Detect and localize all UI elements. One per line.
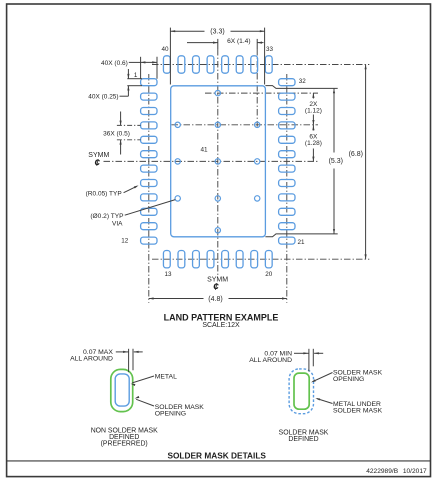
svg-text:4222989/B: 4222989/B: [366, 468, 399, 475]
svg-text:SCALE:12X: SCALE:12X: [202, 322, 240, 329]
dimension 40X (0.6) ticks: [140, 57, 142, 79]
vertical SYMM centerline: [217, 49, 219, 275]
svg-text:ALL AROUND: ALL AROUND: [70, 356, 113, 363]
svg-text:SOLDER MASK: SOLDER MASK: [333, 408, 383, 415]
pad 9 (left column): [141, 194, 157, 201]
pad 39 (top row): [178, 56, 185, 73]
pad 11 (left column): [141, 223, 157, 230]
svg-text:20: 20: [265, 271, 273, 278]
svg-text:SOLDER MASK DETAILS: SOLDER MASK DETAILS: [167, 450, 266, 460]
svg-text:13: 13: [164, 271, 172, 278]
svg-text:12: 12: [121, 238, 129, 245]
pad 27 (right column): [279, 151, 295, 158]
svg-text:(Ø0.2) TYP: (Ø0.2) TYP: [90, 213, 124, 220]
top pad row centerline: [152, 64, 369, 66]
NSMD 0.07 MAX arrows: [116, 351, 129, 353]
pad 17 (bottom row): [222, 251, 229, 268]
SMD metal under mask (blue dashed): [289, 369, 313, 414]
svg-text:OPENING: OPENING: [333, 376, 364, 383]
dimension 6X (1.4) tick at via column: [256, 39, 258, 49]
via row 1 centerline: [205, 92, 318, 94]
pad 2 (left column): [141, 93, 157, 100]
dimension 2X (1.12) arrows: [312, 93, 314, 98]
pad 16 (bottom row): [207, 251, 214, 268]
NSMD solder mask opening (green): [111, 369, 133, 411]
svg-text:(PREFERRED): (PREFERRED): [101, 441, 148, 448]
NSMD metal pad (blue): [115, 374, 129, 406]
pad 21 (right column): [279, 237, 295, 244]
svg-text:33: 33: [266, 46, 274, 53]
svg-text:40X (0.25): 40X (0.25): [88, 93, 118, 100]
pad 36 (top row): [222, 56, 229, 73]
svg-text:10/2017: 10/2017: [403, 468, 427, 475]
pad 29 (right column): [279, 122, 295, 129]
pad 25 (right column): [279, 180, 295, 187]
pad 12 (left column): [141, 237, 157, 244]
SMD 0.07 MIN dimension ticks: [308, 349, 310, 372]
pad 3 (left column): [141, 108, 157, 115]
pad 4 (left column): [141, 122, 157, 129]
svg-text:¢: ¢: [213, 282, 219, 293]
svg-text:40X (0.6): 40X (0.6): [101, 60, 128, 67]
svg-text:36X (0.5): 36X (0.5): [103, 130, 130, 137]
dimension (5.3) extension jog top: [265, 86, 337, 89]
svg-text:(3.3): (3.3): [210, 29, 224, 36]
SMD solder mask opening (green): [294, 373, 309, 409]
svg-text:(R0.05) TYP: (R0.05) TYP: [86, 190, 122, 197]
dimension 6X (1.4) arrows: [187, 42, 218, 44]
svg-text:(4.8): (4.8): [208, 296, 222, 303]
svg-text:DEFINED: DEFINED: [288, 436, 318, 443]
pad 34 (top row): [251, 56, 258, 73]
pad 15 (bottom row): [193, 251, 200, 268]
svg-text:1: 1: [134, 72, 138, 79]
pad 18 (bottom row): [236, 251, 243, 268]
dimension (3.3) extension line left: [169, 28, 171, 85]
svg-text:(6.8): (6.8): [349, 151, 363, 158]
bottom pad row centerline: [152, 258, 369, 260]
dimension 6X (1.4) tick at SYMM: [217, 39, 219, 49]
pad 30 (right column): [279, 108, 295, 115]
pad 19 (bottom row): [251, 251, 258, 268]
pad 32 (right column): [279, 79, 295, 86]
dimension (5.3) line and arrows: [333, 88, 335, 152]
pad 37 (top row): [207, 56, 214, 73]
pad 20 (bottom row): [265, 251, 272, 268]
pad 24 (right column): [279, 194, 295, 201]
dimension 6X (1.28) arrows: [312, 125, 314, 131]
pad 22 (right column): [279, 223, 295, 230]
svg-text:ALL AROUND: ALL AROUND: [249, 357, 292, 364]
dimension 40X (0.25) ticks: [127, 78, 142, 80]
pad 38 (top row): [193, 56, 200, 73]
pad 26 (right column): [279, 165, 295, 172]
thermal pad 41: [171, 86, 266, 237]
pad 5 (left column): [141, 136, 157, 143]
svg-text:6X (1.4): 6X (1.4): [227, 38, 250, 45]
pad 13 (bottom row): [163, 251, 170, 268]
pad 33 (top row): [265, 56, 272, 73]
horizontal SYMM centerline: [104, 160, 319, 162]
pad 14 (bottom row): [178, 251, 185, 268]
pad 10 (left column): [141, 208, 157, 215]
NSMD 0.07 MAX dimension ticks: [128, 349, 130, 372]
dimension 36X (0.5) ticks: [117, 124, 141, 126]
svg-text:OPENING: OPENING: [155, 411, 186, 418]
svg-text:32: 32: [299, 78, 307, 85]
pad 6 (left column): [141, 151, 157, 158]
svg-text:40: 40: [161, 46, 169, 53]
dimension 36X (0.5) arrows: [120, 112, 122, 126]
dimension (3.3) line and arrows: [170, 30, 204, 32]
left pad column centerline: [148, 74, 150, 303]
dimension (6.8) line and arrows: [365, 65, 367, 260]
dimension 40X (0.25) arrows: [127, 69, 129, 79]
svg-text:41: 41: [200, 146, 208, 153]
via row 2 centerline: [172, 124, 319, 126]
svg-text:(1.28): (1.28): [305, 140, 322, 147]
svg-text:21: 21: [298, 239, 306, 246]
svg-text:METAL: METAL: [155, 373, 177, 380]
svg-text:(5.3): (5.3): [329, 158, 343, 165]
right pad column centerline: [286, 74, 288, 303]
dimension (5.3) extension jog bottom: [265, 234, 337, 237]
dimension (3.3) extension line right: [264, 28, 266, 85]
pad 35 (top row): [236, 56, 243, 73]
pad 28 (right column): [279, 136, 295, 143]
dimension 40X (0.25) leader and text: [120, 95, 129, 97]
title block divider line: [7, 460, 431, 462]
svg-text:LAND PATTERN EXAMPLE: LAND PATTERN EXAMPLE: [164, 312, 279, 322]
pad 8 (left column): [141, 180, 157, 187]
thermal vias: [215, 90, 220, 95]
dimension 40X (0.6) arrows: [141, 61, 157, 63]
pad 7 (left column): [141, 165, 157, 172]
svg-text:VIA: VIA: [112, 221, 123, 228]
pad 31 (right column): [279, 93, 295, 100]
pad 1 (left column): [141, 79, 157, 86]
SMD 0.07 MIN arrows: [294, 352, 309, 354]
via column centerline right: [256, 49, 258, 127]
svg-text:(1.12): (1.12): [305, 108, 322, 115]
pad 40 (top row): [163, 56, 170, 73]
pad 23 (right column): [279, 208, 295, 215]
svg-text:¢: ¢: [95, 158, 101, 169]
dimension (4.8) line and arrows: [149, 298, 204, 300]
